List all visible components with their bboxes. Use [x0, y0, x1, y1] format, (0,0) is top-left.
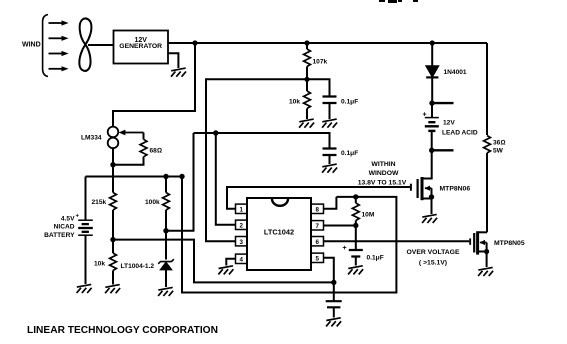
ground LT1004	[158, 287, 173, 296]
wire pin4 to ground	[226, 259, 235, 266]
wire 107k top lead	[306, 43, 308, 49]
arrow over-voltage gate	[469, 238, 471, 244]
wire pin5 connection	[324, 258, 334, 283]
node Q2 source	[484, 249, 489, 254]
wire W2 battery rail to pin8 net	[182, 177, 396, 293]
capacitor C2 0.1uF plates	[323, 149, 337, 156]
svg-text:10k: 10k	[289, 99, 300, 106]
wire C4 to ground	[333, 307, 335, 317]
transistor Q2 MTP8N05 gate bar	[473, 233, 475, 253]
wire 10k lower top lead	[112, 240, 114, 253]
wire pin1 to Q1 gate	[227, 187, 410, 209]
ground Q1 source	[422, 214, 437, 223]
wire propeller hub to generator	[88, 44, 114, 46]
wind arrow 3	[49, 53, 63, 55]
resistor 100k	[163, 193, 170, 211]
wind arrow 2	[49, 37, 63, 39]
wire pin8 connection	[324, 197, 337, 209]
svg-text:10M: 10M	[362, 212, 375, 219]
ground C2	[322, 164, 337, 173]
wind brace	[43, 15, 48, 77]
svg-text:36Ω: 36Ω	[493, 139, 505, 146]
pin 6 box	[311, 237, 324, 246]
svg-text:LT1004-1.2: LT1004-1.2	[121, 263, 155, 270]
wire 68 ohm bottom to LM334 junction	[113, 157, 144, 165]
arrow within-window gate	[410, 184, 412, 191]
wire C3 top lead	[355, 226, 357, 250]
node LM334/68ohm junction	[110, 162, 115, 167]
diode D2 LT1004-1.2 zener	[160, 262, 171, 270]
svg-text:100k: 100k	[145, 199, 160, 206]
svg-text:6: 6	[315, 239, 319, 246]
wire ref node to pin2 riser	[166, 133, 194, 231]
svg-text:0.1μF: 0.1μF	[367, 255, 384, 262]
svg-text:( >15.1V): ( >15.1V)	[419, 260, 447, 267]
svg-text:4: 4	[239, 257, 243, 264]
ground C3	[348, 266, 363, 275]
transistor Q2 body arrow	[480, 242, 486, 244]
transistor Q2 drain lead	[478, 231, 487, 233]
svg-text:5: 5	[315, 256, 319, 263]
wire right rail lower (360 ohm to Q2 drain)	[486, 153, 488, 232]
wire 10M top lead	[355, 197, 357, 203]
svg-text:OVER VOLTAGE: OVER VOLTAGE	[407, 249, 460, 256]
wind arrow 4	[49, 68, 63, 70]
capacitor C3 0.1uF plates	[349, 250, 363, 257]
resistor 10M	[352, 203, 359, 221]
svg-text:NICAD: NICAD	[54, 224, 75, 231]
node divider 107k/10k	[304, 77, 309, 82]
IC U1 LTC1042 body	[247, 198, 311, 270]
svg-text:LEAD ACID: LEAD ACID	[442, 130, 478, 137]
svg-text:2: 2	[239, 223, 243, 230]
wire pin6 to Q2 gate (over voltage)	[324, 240, 470, 242]
capacitor C1 0.1uF plates	[323, 97, 337, 104]
wire ref rail y133 to cap C2	[194, 133, 330, 148]
svg-text:WITHIN: WITHIN	[371, 161, 395, 168]
wire 1N4001 anode lead	[430, 40, 435, 45]
svg-text:BATTERY: BATTERY	[44, 232, 75, 239]
svg-text:LM334: LM334	[81, 135, 102, 142]
wire battery minus terminal stub	[432, 149, 454, 151]
transistor Q1 channel	[421, 177, 424, 200]
top edge print fragments	[379, 0, 385, 2]
pin 2 box	[236, 220, 248, 229]
wire NiCad battery top lead	[85, 177, 87, 220]
current source U2 LM334 circles	[108, 127, 119, 138]
svg-text:+: +	[76, 214, 80, 220]
ground NiCad	[77, 284, 92, 293]
wire pin2 connection	[216, 133, 235, 225]
node Q1 source	[429, 194, 434, 199]
wire top rail from generator to right edge	[168, 42, 487, 44]
svg-text:13.8V TO 15.1V: 13.8V TO 15.1V	[358, 179, 407, 186]
generator ground stub	[168, 53, 178, 68]
wire 10k lower to ground	[112, 271, 114, 285]
resistor 68 ohm	[140, 139, 147, 157]
resistor 10k (lower left)	[110, 253, 117, 271]
svg-text:LTC1042: LTC1042	[264, 228, 294, 237]
node battery plus	[429, 100, 434, 105]
svg-text:WINDOW: WINDOW	[369, 170, 399, 177]
IC notch	[272, 199, 288, 206]
generator box	[114, 31, 169, 64]
wire LM334 bottom lead	[112, 148, 114, 165]
svg-text:1: 1	[239, 207, 243, 214]
wire 100k bottom through to LT1004	[165, 210, 167, 260]
svg-text:0.1μF: 0.1μF	[341, 99, 358, 106]
pin 1 box	[236, 204, 248, 213]
wire LM334 top lead	[112, 111, 114, 127]
svg-text:+: +	[343, 245, 347, 252]
svg-text:MTP8N06: MTP8N06	[440, 186, 471, 193]
svg-text:215k: 215k	[92, 199, 107, 206]
svg-text:10k: 10k	[94, 261, 105, 268]
pin 4 box	[236, 254, 248, 263]
wire NiCad bottom to ground	[85, 235, 87, 284]
svg-text:3: 3	[239, 239, 243, 246]
transistor Q1 MTP8N06 gate bar	[417, 179, 419, 198]
wire C2 to ground	[329, 155, 331, 164]
wire battery plus rail y176	[86, 176, 183, 178]
wire pin7 connection	[324, 225, 356, 227]
svg-text:7: 7	[315, 223, 319, 230]
node rail-107k	[304, 40, 309, 45]
battery B1 4.5V NiCad	[78, 219, 93, 221]
wire 68 ohm top lead	[143, 133, 145, 140]
wire battery plus terminal stub	[432, 102, 454, 104]
svg-text:+: +	[423, 112, 427, 119]
svg-text:68Ω: 68Ω	[150, 148, 162, 155]
wire 10k(top) leads	[306, 79, 308, 119]
svg-text:GENERATOR: GENERATOR	[119, 43, 162, 50]
node battery minus	[429, 148, 434, 153]
ground pin4	[218, 266, 233, 275]
diode D1 1N4001	[426, 66, 439, 77]
transistor Q1 body arrow	[425, 187, 432, 189]
node 215k/10k tap	[110, 237, 115, 242]
node battery rail corner to W2	[179, 174, 184, 179]
ground generator	[171, 68, 186, 77]
svg-text:12V: 12V	[443, 120, 455, 127]
propeller top blade	[80, 19, 92, 45]
transistor Q1 source lead	[422, 198, 432, 200]
svg-text:MTP8N05: MTP8N05	[494, 240, 525, 247]
resistor 10k (top divider)	[304, 91, 311, 109]
propeller bottom blade	[79, 45, 90, 71]
wire 1N4001 cathode to battery	[431, 77, 433, 103]
pin 3 box	[236, 237, 248, 246]
resistor 107k	[304, 49, 311, 67]
resistor 215k	[110, 193, 117, 211]
pin 7 box	[311, 221, 324, 230]
ground 10k lower	[105, 285, 120, 294]
wire right rail upper (to 360 ohm)	[486, 43, 488, 135]
ground C4	[326, 318, 341, 327]
wire battery minus to Q1 drain	[422, 150, 432, 178]
wire divider node right to cap C1	[307, 79, 330, 96]
wire LM334 junction down to 215k (crosses battery rail)	[112, 165, 114, 193]
wire C1 to ground	[329, 103, 331, 119]
ground C1	[322, 119, 337, 128]
node 10M top	[353, 194, 358, 199]
pin 8 box	[311, 204, 324, 213]
node rail-LM334 branch	[192, 40, 197, 45]
node pin5/C4 junction	[331, 280, 336, 285]
wire C3 to ground	[355, 257, 357, 266]
svg-text:0.1μF: 0.1μF	[341, 150, 358, 157]
resistor R 360ohm 5W	[484, 136, 491, 154]
ground 10k top divider	[299, 119, 314, 128]
wire 100k top lead	[165, 177, 167, 193]
capacitor C4 plates	[326, 301, 342, 307]
wire 215k bottom to tap node	[112, 210, 114, 240]
wire LT1004 anode to ground	[165, 270, 167, 287]
wire battery tap to W1 bottom rail	[113, 240, 334, 283]
svg-text:1N4001: 1N4001	[444, 69, 467, 76]
battery B2 12V lead acid	[431, 103, 433, 117]
svg-text:107k: 107k	[313, 59, 328, 66]
wire divider node left and down to pin3	[206, 79, 307, 241]
wire C4 top lead (crosses W2)	[333, 282, 335, 300]
svg-text:5W: 5W	[493, 147, 504, 154]
wire 10M bottom lead	[355, 221, 357, 226]
wire 107k to divider node	[306, 67, 308, 80]
ground Q2 source	[478, 267, 493, 276]
transistor Q2 channel	[476, 231, 479, 254]
node pin2 riser	[213, 130, 218, 135]
node 100k top	[163, 174, 168, 179]
svg-text:WIND: WIND	[22, 42, 41, 49]
wind arrow 1	[49, 22, 63, 24]
wire rail down to LM334	[113, 43, 195, 127]
svg-text:LINEAR TECHNOLOGY CORPORATION: LINEAR TECHNOLOGY CORPORATION	[27, 325, 218, 336]
svg-text:8: 8	[315, 207, 319, 214]
transistor Q2 source lead	[478, 251, 487, 253]
pin 5 box	[311, 253, 324, 262]
LM334 set arrow	[125, 132, 144, 134]
node 100k/LT1004/ref	[163, 228, 168, 233]
node 10M/pin7/C3	[353, 223, 358, 228]
svg-text:4.5V: 4.5V	[61, 216, 75, 223]
